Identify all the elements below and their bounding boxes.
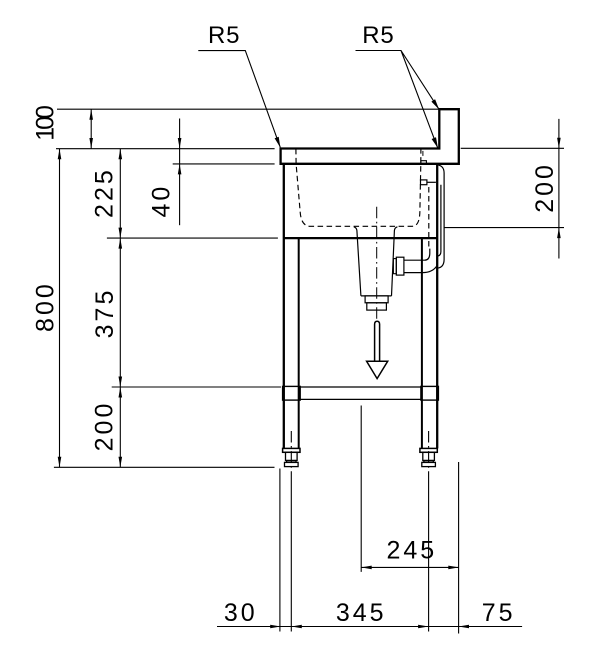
svg-text:R5: R5 (208, 22, 240, 49)
right foot adjuster (420, 448, 437, 466)
wire extension line right 200 top (461, 147, 564, 149)
standpipe outer right (437, 165, 444, 268)
svg-text:225: 225 (91, 167, 119, 218)
wire extension line top (backsplash top level) (57, 108, 439, 110)
countertop and backsplash outline (281, 109, 459, 164)
dimension 40 line (179, 119, 181, 226)
svg-text:75: 75 (482, 599, 516, 627)
drain cone (354, 227, 398, 296)
right leg inner (421, 238, 423, 448)
undershelf collar right (421, 386, 439, 400)
cabinet left side panel and leg outer (283, 164, 285, 449)
wire extension line counter surface left (56, 148, 275, 150)
svg-text:40: 40 (148, 184, 176, 218)
dimension 100 line (90, 109, 92, 148)
wire extension line floor (54, 466, 275, 468)
wire extension line frame bottom left (107, 237, 278, 239)
overflow pipe hidden dashed (428, 187, 430, 247)
node center mark right foot (428, 431, 430, 478)
dimension 800 line (59, 149, 61, 468)
dimension 245 line (361, 566, 459, 568)
overflow nipple line (427, 181, 436, 183)
svg-text:100: 100 (31, 106, 59, 141)
svg-text:200: 200 (531, 162, 559, 213)
svg-text:345: 345 (336, 599, 387, 627)
sink bowl hidden outline dashed (296, 149, 421, 226)
svg-text:800: 800 (32, 281, 60, 332)
wire extension line front edge vertical (279, 469, 281, 632)
cabinet frame bottom (284, 237, 437, 239)
svg-text:30: 30 (224, 599, 258, 627)
overflow center dash (422, 151, 424, 156)
drain outlet pipe lower line elbow (404, 266, 437, 273)
dimension 375 line (119, 238, 121, 387)
drain direction arrow (375, 321, 380, 361)
undershelf lines (300, 387, 421, 399)
dimension 225 line (119, 149, 121, 238)
svg-text:375: 375 (91, 288, 119, 339)
cabinet right side panel and leg outer (436, 164, 438, 449)
wire extension line counter underside (40 dim) (173, 163, 275, 165)
drain tailpiece (365, 296, 388, 303)
overflow hole tick at counter (421, 161, 427, 164)
left foot adjuster (283, 448, 300, 466)
undershelf collar left (283, 386, 301, 400)
svg-text:R5: R5 (362, 22, 394, 49)
dimension 200 right line (558, 119, 560, 259)
drain side outlet fitting (396, 257, 404, 275)
left leg inner (298, 238, 300, 448)
svg-text:200: 200 (91, 401, 119, 452)
overflow fitting (421, 180, 427, 185)
wire extension line shelf top left (112, 386, 281, 388)
wire extension line right 200 bottom (444, 227, 564, 229)
node center mark left foot (290, 431, 292, 478)
leader R5 left (198, 51, 280, 148)
standpipe outer left edge (437, 185, 441, 256)
wire extension right leg center vertical (428, 478, 430, 632)
dimension 30 345 75 line (217, 626, 522, 628)
dimension 200 left line (119, 387, 121, 467)
wire extension left leg center vertical (290, 478, 292, 632)
drain outlet pipe upper line with riser elbow (404, 249, 430, 261)
svg-text:245: 245 (386, 537, 437, 565)
drain centerline (376, 207, 378, 320)
wire extension drain 245 vertical (360, 406, 362, 572)
leader R5 right (356, 51, 440, 149)
wire extension back edge vertical (458, 462, 460, 634)
